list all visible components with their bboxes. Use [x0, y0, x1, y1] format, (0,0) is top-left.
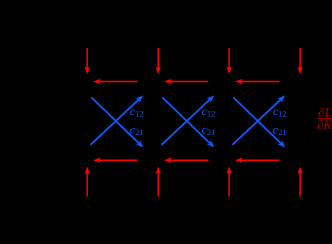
coupling c21 arrow gap 1 (blue, down-right): [91, 97, 144, 148]
bottom pump arrow column 3 (red, up): [227, 168, 231, 197]
label dL/dK fraction (dark red), clipped at right edge: [317, 105, 332, 131]
svg-text:c21: c21: [130, 123, 144, 138]
svg-text:c21: c21: [273, 123, 287, 138]
coupling c21 arrow gap 2 (blue, down-right): [162, 97, 215, 148]
bottom pump arrow column 2 (red, up): [156, 168, 160, 197]
bottom-row hopping arrow gap 3 (red, left): [236, 158, 279, 162]
svg-text:c12: c12: [273, 104, 287, 119]
top decay arrow column 1 (red, down): [85, 48, 89, 73]
coupling c12 arrow gap 3 (blue, up-right): [232, 94, 286, 145]
coupling c12 arrow gap 1 (blue, up-right): [91, 94, 145, 145]
svg-text:c12: c12: [202, 104, 216, 119]
top decay arrow column 3 (red, down): [227, 48, 231, 73]
bottom pump arrow column 4 (red, up): [298, 168, 302, 197]
top-row hopping arrow gap 1 (red, left): [94, 79, 137, 83]
bottom-row hopping arrow gap 1 (red, left): [94, 158, 137, 162]
bottom-row hopping arrow gap 2 (red, left): [165, 158, 208, 162]
coupling c12 arrow gap 2 (blue, up-right): [162, 94, 216, 145]
top-row hopping arrow gap 2 (red, left): [165, 79, 208, 83]
top-row hopping arrow gap 3 (red, left): [236, 79, 279, 83]
svg-text:c21: c21: [202, 123, 216, 138]
top decay arrow column 2 (red, down): [156, 48, 160, 73]
svg-text:c12: c12: [130, 104, 144, 119]
bottom pump arrow column 1 (red, up): [85, 168, 89, 197]
coupling c21 arrow gap 3 (blue, down-right): [233, 97, 286, 148]
top decay arrow column 4 (red, down): [298, 48, 302, 73]
svg-text:∂K: ∂K: [317, 118, 332, 132]
